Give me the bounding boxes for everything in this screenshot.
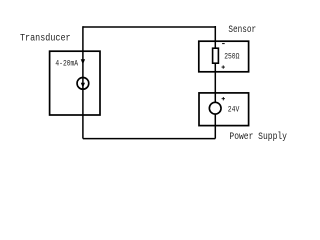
transducer box (50, 51, 100, 115)
current direction arrow (81, 59, 85, 64)
polarity plus (resistor bottom) (222, 65, 225, 68)
polarity plus (voltage source) (222, 97, 225, 100)
wire left branch (82, 26, 84, 138)
wire supply drop (214, 114, 216, 139)
resistor 250 ohm (213, 48, 219, 63)
wire top rail (83, 26, 215, 28)
svg-text:Transducer: Transducer (20, 32, 71, 43)
sensor box (199, 41, 249, 72)
voltage source V1 24V (209, 102, 221, 114)
current source I1 (77, 78, 89, 90)
power supply box (199, 93, 249, 126)
svg-text:250Ω: 250Ω (224, 52, 239, 61)
svg-text:Sensor: Sensor (228, 25, 256, 36)
svg-text:Power Supply: Power Supply (229, 131, 287, 142)
wire bottom rail (83, 138, 215, 140)
polarity minus (resistor top) (222, 43, 225, 45)
svg-text:4-20mA: 4-20mA (55, 60, 78, 69)
wire sensor to supply (214, 63, 216, 103)
svg-text:24V: 24V (228, 106, 240, 115)
wire sensor drop (214, 26, 216, 49)
